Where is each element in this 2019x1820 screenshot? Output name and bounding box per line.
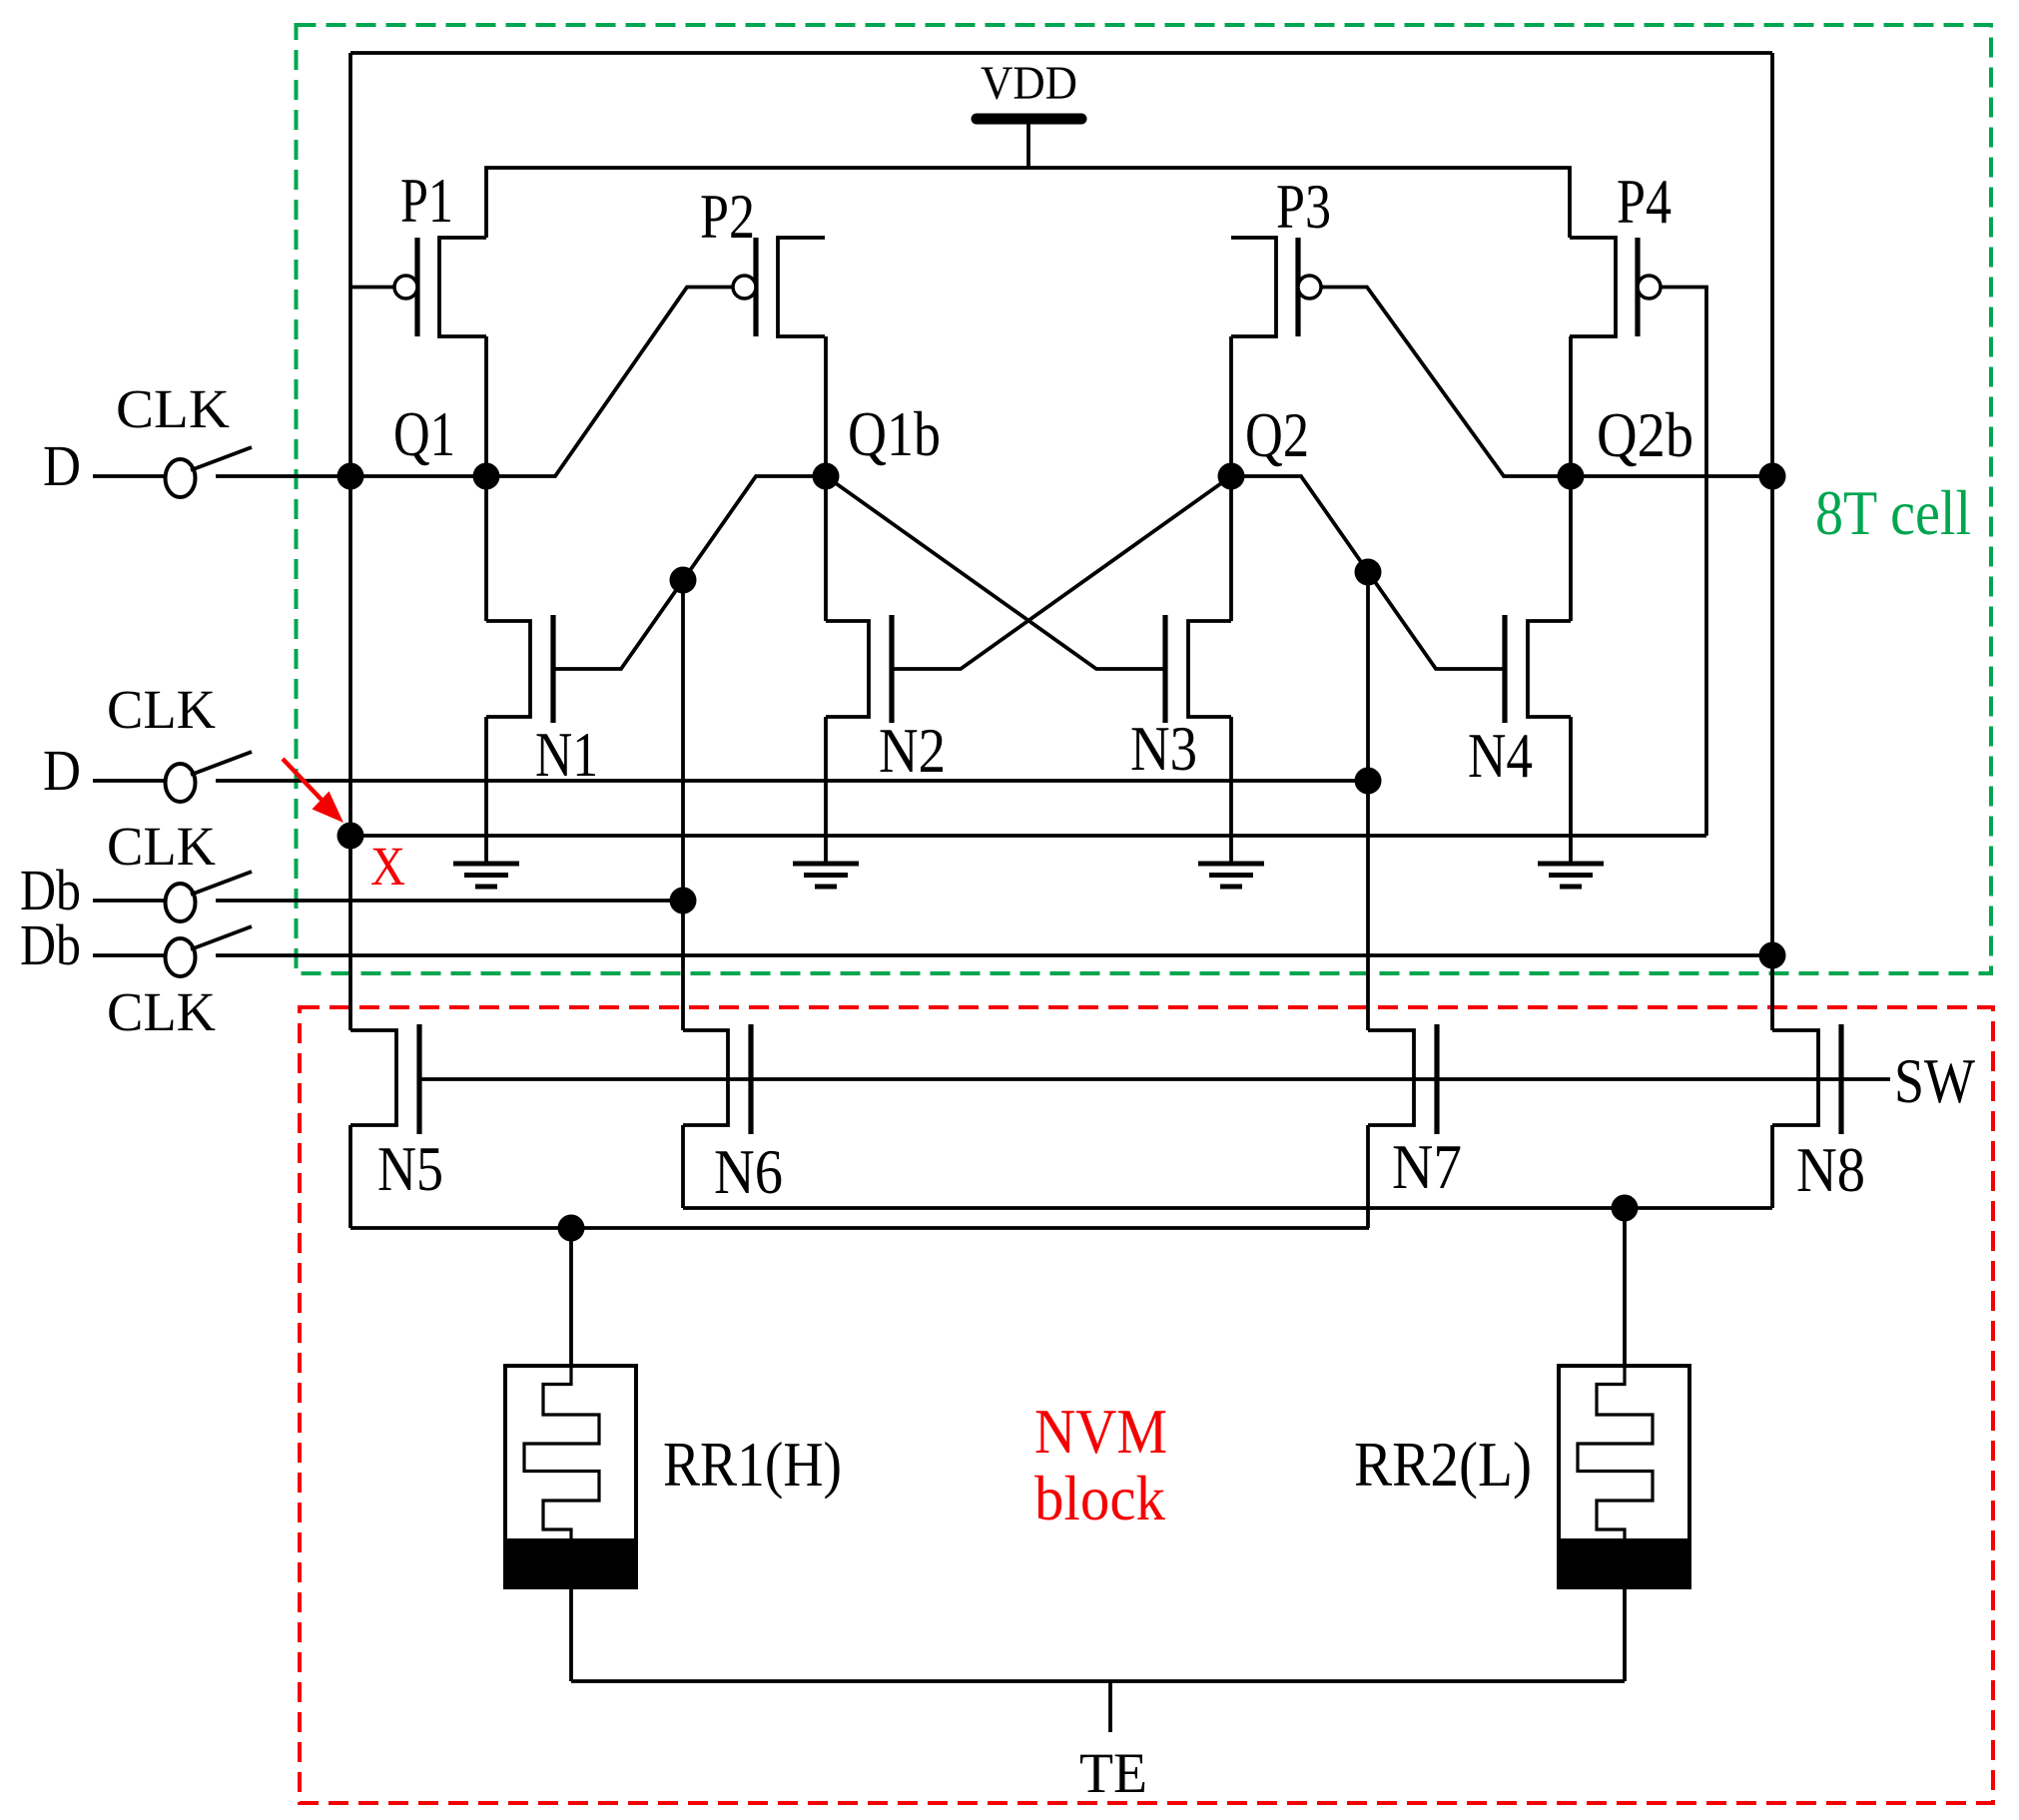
svg-text:CLK: CLK — [107, 981, 216, 1042]
svg-text:RR2(L): RR2(L) — [1354, 1429, 1532, 1500]
svg-text:N6: N6 — [714, 1136, 783, 1207]
svg-text:P1: P1 — [400, 165, 453, 236]
svg-text:RR1(H): RR1(H) — [663, 1429, 842, 1500]
svg-text:block: block — [1034, 1463, 1165, 1533]
svg-text:P4: P4 — [1617, 166, 1672, 237]
svg-text:VDD: VDD — [981, 57, 1077, 110]
svg-text:Q1: Q1 — [393, 398, 455, 469]
svg-text:N5: N5 — [377, 1133, 443, 1204]
svg-text:Q2b: Q2b — [1597, 399, 1693, 470]
svg-text:TE: TE — [1079, 1742, 1147, 1805]
svg-text:Q2: Q2 — [1245, 399, 1309, 470]
svg-text:D: D — [43, 433, 81, 498]
svg-text:CLK: CLK — [107, 679, 216, 740]
svg-text:N4: N4 — [1468, 720, 1533, 791]
svg-text:D: D — [43, 738, 81, 803]
svg-text:N1: N1 — [535, 719, 598, 790]
svg-text:Q1b: Q1b — [848, 398, 941, 469]
svg-text:P3: P3 — [1276, 171, 1331, 242]
svg-text:N8: N8 — [1796, 1134, 1865, 1205]
svg-text:NVM: NVM — [1034, 1396, 1167, 1467]
svg-text:8T cell: 8T cell — [1815, 477, 1971, 548]
svg-text:CLK: CLK — [107, 816, 216, 877]
svg-text:N7: N7 — [1392, 1131, 1462, 1202]
svg-text:P2: P2 — [700, 181, 755, 252]
svg-text:N2: N2 — [879, 715, 946, 786]
svg-text:X: X — [370, 836, 405, 897]
svg-text:SW: SW — [1894, 1045, 1976, 1116]
svg-text:N3: N3 — [1130, 713, 1197, 784]
svg-text:Db: Db — [20, 912, 81, 977]
svg-text:CLK: CLK — [116, 378, 230, 439]
